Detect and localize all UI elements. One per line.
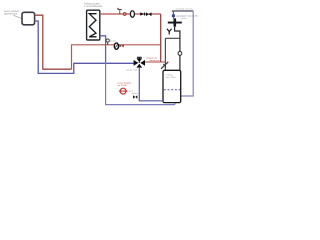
svg-text:с теплообменник: с теплообменник [84, 6, 103, 8]
svg-text:группа: группа [181, 18, 188, 20]
svg-text:обратн.: обратн. [132, 93, 139, 95]
svg-text:датчик: датчик [110, 40, 116, 42]
svg-text:кран: кран [129, 91, 133, 93]
svg-text:клапан терм: клапан терм [126, 70, 139, 72]
svg-text:расшир. бак гвс: расшир. бак гвс [176, 8, 193, 10]
svg-text:смеситель: смеситель [149, 60, 161, 62]
svg-text:двухконтурн.: двухконтурн. [4, 14, 18, 16]
svg-text:гвс 25-40: гвс 25-40 [117, 85, 127, 87]
svg-text:косв. 200л: косв. 200л [166, 77, 177, 79]
